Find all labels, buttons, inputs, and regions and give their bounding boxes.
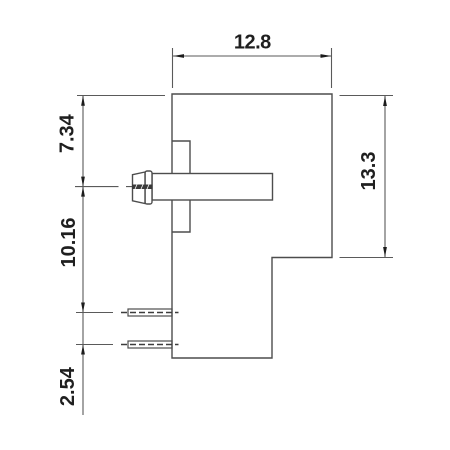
svg-text:10.16: 10.16: [58, 217, 80, 267]
svg-text:12.8: 12.8: [234, 32, 271, 54]
svg-text:2.54: 2.54: [57, 366, 79, 406]
svg-text:7.34: 7.34: [57, 113, 79, 153]
svg-text:13.3: 13.3: [358, 152, 380, 191]
